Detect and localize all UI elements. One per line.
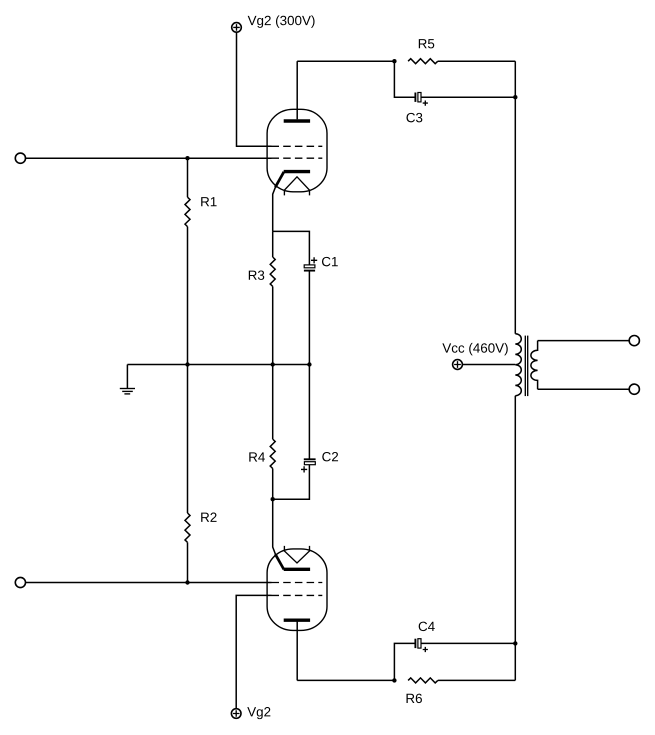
tube V2 envelope [267, 549, 327, 631]
terminal Vg2 (300V) [232, 23, 242, 33]
wire node A to C3 [394, 61, 414, 97]
label R3 [249, 270, 264, 279]
V2 cathode lead diagonal [275, 554, 284, 569]
wire V1 plate lead [296, 61, 298, 119]
label R4 [249, 452, 265, 461]
output terminal bottom [629, 384, 639, 394]
label Vg2 bottom [247, 707, 270, 719]
wire secondary top to output [538, 340, 629, 342]
resistor R4 [270, 439, 275, 468]
junction plate node B / R6 / C4 [392, 678, 396, 682]
wire R2 to input bottom node [187, 542, 189, 582]
capacitor C4 [415, 639, 428, 652]
wire input bottom to V2 grid g1 [26, 582, 272, 584]
tube V1 envelope [267, 109, 327, 192]
V2 anode plate bar [284, 619, 310, 622]
junction ground bus / C1C2 [307, 362, 311, 366]
label Vcc (460V) [442, 343, 507, 355]
resistor R1 [185, 197, 190, 226]
transformer T1 secondary winding [531, 341, 538, 390]
resistor R6 [408, 678, 438, 683]
capacitor C1 [304, 257, 317, 270]
output terminal top [629, 336, 639, 346]
wire C1 to ground bus [308, 271, 310, 365]
label R2 [201, 513, 216, 522]
wire Vg2 bottom to V2 screen grid g2 [236, 595, 271, 708]
wire V1 plate to node A [297, 60, 394, 62]
wire Vcc to transformer center tap [463, 364, 516, 366]
V1 heater [284, 177, 309, 196]
V1 screen grid g2 [272, 145, 323, 147]
label Vg2 (300V) [248, 15, 315, 27]
wire secondary bottom to output [538, 388, 629, 390]
wire branch to R3 [272, 231, 274, 257]
label R5 [419, 39, 434, 48]
wire junction to V2 cathode [273, 499, 276, 555]
wire input node to R1 [187, 158, 189, 197]
wire right rail upper [514, 61, 516, 334]
wire R3 to ground bus [272, 286, 274, 364]
wire C3 to right rail [421, 96, 515, 98]
label C2 [322, 452, 338, 461]
V2 screen grid g2 [272, 594, 323, 596]
ground bus wire [127, 364, 309, 366]
label R1 [201, 197, 216, 206]
wire R1 to ground bus [187, 227, 189, 365]
capacitor C2 [301, 365, 316, 473]
junction ground bus / R3R4 [271, 362, 275, 366]
junction plate node A / R5 / C3 [392, 59, 396, 63]
wire V2 plate lead [296, 620, 298, 680]
V1 cathode bar [284, 170, 310, 173]
wire V1 cathode down [273, 187, 276, 232]
junction input bottom / R2 [185, 580, 189, 584]
wire right rail lower [514, 396, 516, 681]
label R6 [406, 694, 421, 703]
wire R5 to right rail [438, 60, 516, 62]
label C1 [322, 257, 338, 266]
V1 control grid g1 [272, 157, 323, 159]
resistor R2 [185, 513, 190, 542]
capacitor C3 [415, 93, 428, 106]
wire input top to V1 grid g1 [26, 157, 272, 159]
junction C3 / right rail [513, 95, 517, 99]
transformer T1 primary winding [515, 334, 521, 396]
wire R6 to right rail [438, 679, 516, 681]
wire ground bus to R2 [187, 365, 189, 514]
transformer T1 core [525, 336, 527, 397]
V1 anode plate bar [284, 119, 310, 122]
V2 heater [284, 546, 309, 563]
label C3 [406, 113, 422, 122]
resistor R3 [270, 257, 275, 286]
label C4 [419, 622, 435, 631]
V2 cathode bar [284, 568, 310, 571]
wire R4 to cathode junction [272, 469, 274, 500]
resistor R5 [408, 59, 438, 64]
wire V2 plate to node B [297, 679, 394, 681]
input terminal bottom [15, 577, 25, 587]
wire C2 to cathode junction [273, 465, 310, 500]
wire Vg2 top to V1 screen grid g2 [237, 32, 272, 146]
wire node B to C4 [394, 643, 414, 680]
terminal Vcc (460V) [453, 360, 463, 370]
input terminal top [15, 153, 25, 163]
wire ground bus to R4 [272, 365, 274, 440]
V2 control grid g1 [272, 582, 323, 584]
junction input top / R1 [185, 156, 189, 160]
ground symbol [120, 365, 135, 394]
V1 cathode lead diagonal [275, 172, 284, 187]
junction ground bus / R1R2 [185, 362, 189, 366]
wire C4 to right rail [421, 642, 515, 644]
junction R4 / C2 / V2 cathode [271, 497, 275, 501]
terminal Vg2 bottom [231, 709, 241, 719]
junction C4 / right rail [513, 641, 517, 645]
wire cathode branch to C1 [273, 231, 310, 265]
